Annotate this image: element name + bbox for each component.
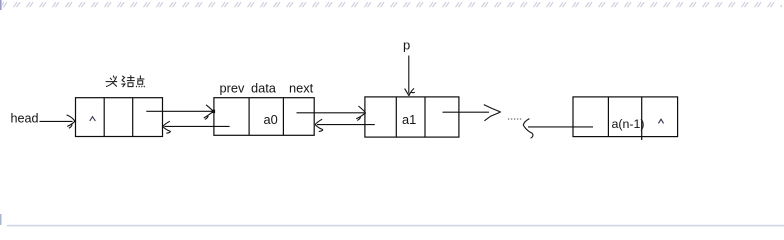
arrowhead next at N3 left edge <box>356 106 366 120</box>
wire prev N3 to N2 <box>317 124 375 126</box>
node N1 head-node box <box>76 98 163 137</box>
svg-text:prev: prev <box>220 81 245 96</box>
big curved arrowhead left <box>523 119 533 139</box>
arrowhead prev at N1 right edge <box>163 121 171 133</box>
wire next N3 rightward <box>443 111 490 113</box>
top selection hatch border <box>2 1 782 9</box>
N3 cell divider 2 <box>424 97 426 137</box>
null mark in N4 next cell <box>658 119 663 123</box>
arrowhead prev at N2 right edge <box>315 119 323 131</box>
头 <box>110 78 112 80</box>
label a1 <box>402 112 416 127</box>
label data <box>251 81 277 96</box>
wire next N2 to N3 <box>297 112 365 114</box>
svg-text:a1: a1 <box>402 112 416 127</box>
N2 cell divider 1 <box>248 98 250 136</box>
ellipsis dots <box>508 118 522 120</box>
label next <box>289 81 314 96</box>
N1 cell divider 2 <box>132 98 134 137</box>
arrowhead head->N1 <box>67 115 75 128</box>
N4 cell divider 1 <box>607 97 609 137</box>
svg-text:data: data <box>251 81 277 96</box>
结 <box>122 76 125 80</box>
label prev <box>220 81 245 96</box>
node N3 box <box>365 97 459 137</box>
bottom separator line <box>7 225 784 227</box>
top-left border tick <box>0 0 2 10</box>
svg-text:head: head <box>11 112 39 126</box>
svg-text:a0: a0 <box>264 112 278 127</box>
label p <box>403 38 410 53</box>
arrowhead p down into N3 <box>405 88 415 95</box>
null mark in N1 prev cell <box>90 117 96 121</box>
wire head arrow <box>40 120 73 122</box>
node N2 box <box>214 98 314 136</box>
bottom-left border tick <box>0 214 2 225</box>
wire p arrow <box>408 56 410 94</box>
svg-text:a(n-1): a(n-1) <box>612 117 645 131</box>
N2 cell divider 2 <box>282 98 284 136</box>
label a0 <box>264 112 278 127</box>
svg-text:p: p <box>403 38 410 53</box>
big open arrowhead right <box>484 105 501 121</box>
label head <box>11 112 39 126</box>
wire prev from N4 leftward <box>528 126 593 128</box>
wire prev N2 to N1 <box>164 125 229 127</box>
label a(n-1) <box>612 117 645 131</box>
N1 cell divider 1 <box>103 98 105 137</box>
svg-text:next: next <box>289 81 314 96</box>
node N4 box <box>573 97 678 137</box>
N3 cell divider 1 <box>395 97 397 137</box>
label 头结点 <box>106 75 145 87</box>
点 <box>139 75 141 79</box>
N4 cell divider 2 (overshoots bottom) <box>641 97 643 140</box>
arrowhead next at N2 left edge with square tip <box>204 105 215 120</box>
wire next N1 to N2 <box>146 110 212 112</box>
